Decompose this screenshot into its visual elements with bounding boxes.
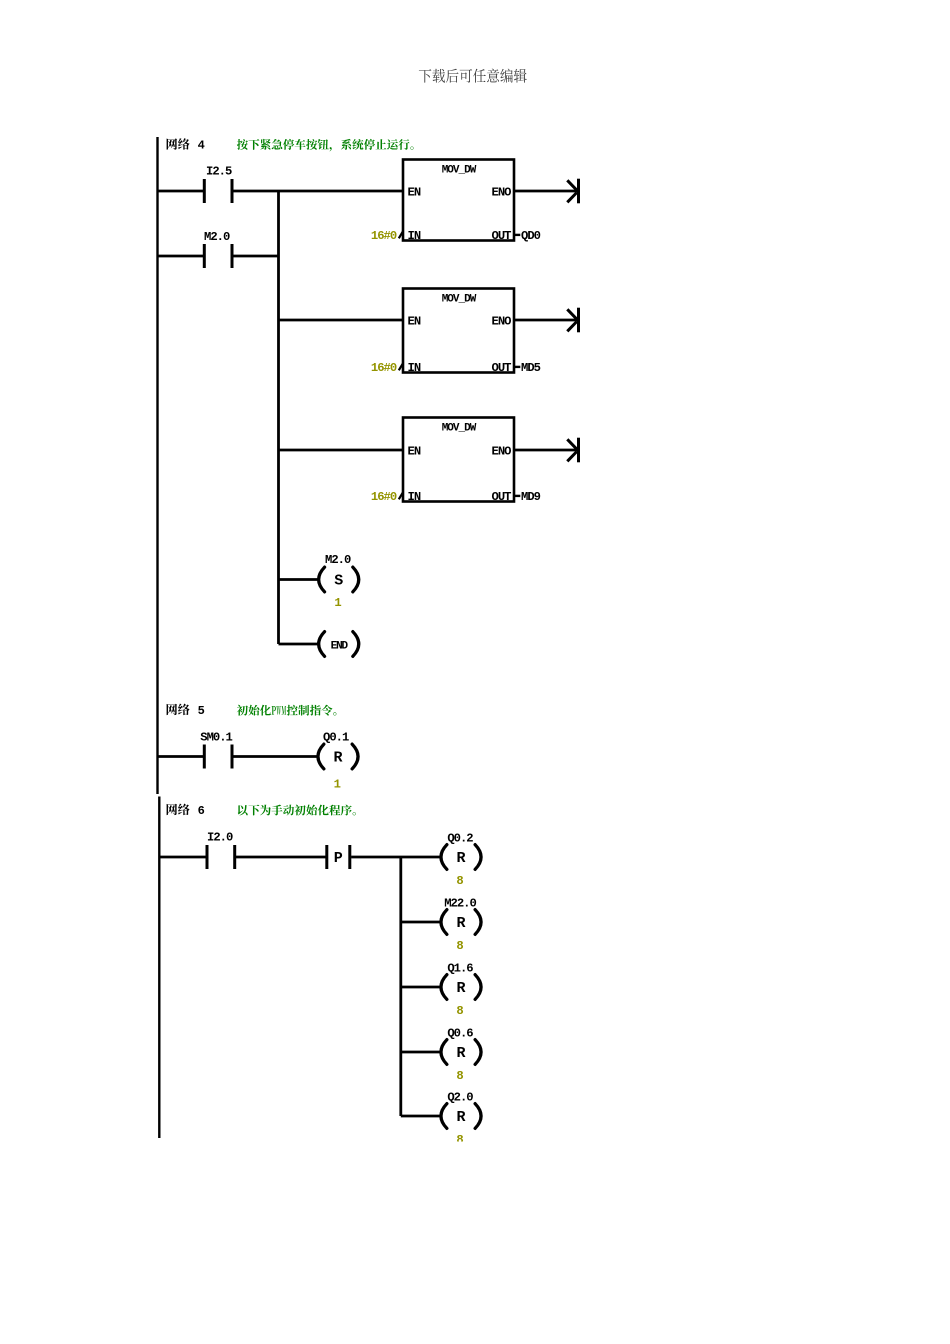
header text 下载后可任意编辑 — [419, 69, 527, 83]
svg-text:1: 1 — [334, 596, 341, 610]
svg-text:END: END — [331, 640, 349, 652]
operand MD9 (B3 OUT) — [514, 495, 520, 497]
wire — [233, 755, 317, 758]
svg-text:5: 5 — [198, 704, 205, 718]
svg-text:Q1.6: Q1.6 — [447, 961, 473, 975]
network 6 comment — [238, 805, 356, 816]
coil R M22.0 — [441, 910, 447, 935]
wire — [233, 255, 278, 258]
svg-text:IN: IN — [408, 361, 421, 375]
wire — [279, 319, 404, 322]
svg-text:IN: IN — [408, 490, 421, 504]
wire — [401, 1051, 440, 1054]
svg-text:16#0: 16#0 — [371, 490, 397, 504]
contact M2.0 — [204, 244, 232, 268]
svg-text:MOV_DW: MOV_DW — [442, 165, 477, 177]
wire — [233, 190, 403, 193]
page-bottom crop mask — [0, 1142, 950, 1344]
coil END — [319, 632, 325, 657]
svg-text:R: R — [456, 980, 465, 997]
svg-text:16#0: 16#0 — [371, 229, 397, 243]
coil R Q0.6 — [441, 1040, 447, 1065]
contact P positive edge — [327, 845, 350, 869]
wire — [279, 449, 404, 452]
node branch junction — [277, 191, 280, 644]
svg-text:P: P — [334, 850, 343, 867]
wire — [159, 856, 206, 859]
svg-text:16#0: 16#0 — [371, 361, 397, 375]
svg-text:OUT: OUT — [492, 361, 512, 375]
wire — [158, 755, 204, 758]
wire — [236, 856, 327, 859]
svg-text:ENO: ENO — [492, 444, 512, 458]
wire — [279, 643, 318, 646]
svg-text:Q2.0: Q2.0 — [447, 1090, 473, 1104]
svg-text:QD0: QD0 — [521, 229, 541, 243]
function block MOV_DW B3 — [403, 418, 514, 502]
svg-text:ENO: ENO — [492, 314, 512, 328]
svg-text:6: 6 — [198, 804, 205, 818]
svg-text:I2.0: I2.0 — [207, 831, 233, 845]
svg-text:S: S — [334, 573, 343, 590]
wire — [279, 578, 318, 581]
svg-text:R: R — [333, 749, 342, 766]
node branch junction — [399, 857, 402, 1116]
svg-text:M2.0: M2.0 — [325, 553, 351, 567]
operand MD5 (B2 OUT) — [514, 366, 520, 368]
svg-text:R: R — [456, 850, 465, 867]
svg-text:ENO: ENO — [492, 185, 512, 199]
svg-text:R: R — [456, 1045, 465, 1062]
wire — [351, 856, 440, 859]
contact I2.0 — [207, 845, 235, 869]
coil S M2.0 — [319, 567, 325, 592]
coil R Q0.2 — [441, 845, 447, 870]
svg-text:EN: EN — [408, 444, 421, 458]
operand QD0 (B1 OUT) — [514, 234, 520, 236]
left power rail (networks 4-5) — [156, 137, 158, 794]
svg-text:OUT: OUT — [492, 229, 512, 243]
wire — [401, 921, 440, 924]
svg-text:MD9: MD9 — [521, 490, 541, 504]
svg-text:MOV_DW: MOV_DW — [442, 294, 477, 306]
svg-text:IN: IN — [408, 229, 421, 243]
contact I2.5 — [204, 179, 232, 203]
svg-text:I2.5: I2.5 — [206, 165, 232, 179]
coil R Q2.0 — [441, 1104, 447, 1129]
contact SM0.1 — [204, 745, 232, 769]
network 5 label — [167, 704, 190, 715]
svg-text:4: 4 — [198, 139, 205, 153]
svg-text:M22.0: M22.0 — [444, 896, 476, 910]
svg-text:8: 8 — [456, 939, 463, 953]
coil R Q0.1 — [318, 744, 324, 769]
svg-text:MD5: MD5 — [521, 361, 541, 375]
left power rail (network 6) — [158, 797, 160, 1139]
svg-text:8: 8 — [456, 1004, 463, 1018]
wire — [158, 190, 204, 193]
svg-text:Q0.1: Q0.1 — [323, 731, 349, 745]
svg-text:EN: EN — [408, 314, 421, 328]
svg-text:8: 8 — [456, 874, 463, 888]
svg-text:Q0.6: Q0.6 — [447, 1026, 473, 1040]
svg-text:1: 1 — [334, 777, 341, 791]
svg-text:M2.0: M2.0 — [204, 230, 230, 244]
svg-text:8: 8 — [456, 1069, 463, 1083]
wire — [401, 1115, 440, 1118]
rung continuation arrow — [514, 319, 578, 322]
svg-text:SM0.1: SM0.1 — [200, 731, 232, 745]
svg-text:Q0.2: Q0.2 — [447, 831, 473, 845]
network 4 comment — [237, 139, 414, 151]
svg-text:R: R — [456, 1109, 465, 1126]
network 4 label — [167, 138, 190, 149]
svg-text:EN: EN — [408, 185, 421, 199]
svg-text:OUT: OUT — [492, 490, 512, 504]
rung continuation arrow — [514, 449, 578, 452]
svg-text:MOV_DW: MOV_DW — [442, 423, 477, 435]
wire — [158, 255, 204, 258]
wire — [401, 986, 440, 989]
svg-text:R: R — [456, 915, 465, 932]
function block MOV_DW B2 — [403, 289, 514, 373]
function block MOV_DW B1 — [403, 160, 514, 241]
coil R Q1.6 — [441, 975, 447, 1000]
network 5 comment — [237, 705, 337, 716]
network 6 label — [167, 804, 190, 815]
rung continuation arrow — [514, 190, 578, 193]
